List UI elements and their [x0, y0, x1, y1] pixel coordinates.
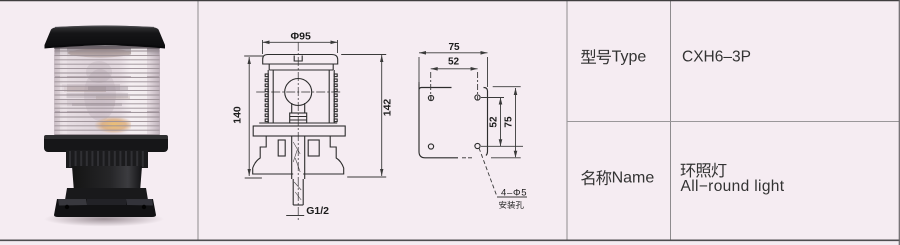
svg-text:Φ95: Φ95 [291, 31, 311, 43]
svg-text:Type: Type [612, 48, 647, 65]
svg-text:52: 52 [489, 116, 500, 128]
svg-text:75: 75 [504, 116, 515, 128]
svg-text:140: 140 [232, 106, 244, 124]
svg-text:75: 75 [448, 42, 460, 53]
svg-text:G1/2: G1/2 [306, 205, 329, 217]
svg-text:52: 52 [448, 56, 460, 67]
svg-text:CXH6–3P: CXH6–3P [682, 49, 751, 66]
svg-text:Name: Name [612, 169, 655, 186]
svg-text:4–Φ5: 4–Φ5 [501, 188, 527, 199]
svg-text:All−round light: All−round light [681, 178, 785, 195]
svg-text:142: 142 [382, 99, 394, 117]
